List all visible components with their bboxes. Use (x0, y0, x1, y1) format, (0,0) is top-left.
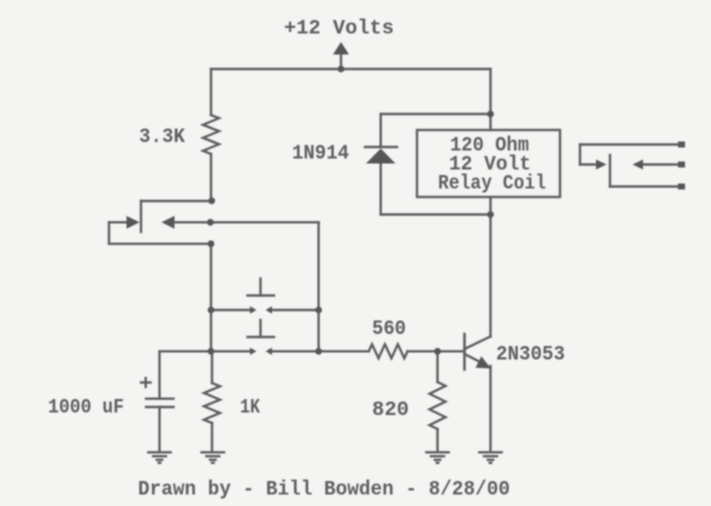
svg-text:Drawn by - Bill Bowden - 8/28/: Drawn by - Bill Bowden - 8/28/00 (138, 479, 510, 502)
svg-text:+12 Volts: +12 Volts (284, 18, 394, 41)
svg-text:820: 820 (372, 399, 409, 422)
svg-text:1N914: 1N914 (292, 143, 349, 166)
svg-text:560: 560 (372, 318, 406, 341)
svg-text:2N3053: 2N3053 (496, 344, 565, 367)
svg-text:1K: 1K (240, 397, 261, 420)
svg-text:3.3K: 3.3K (139, 126, 186, 149)
svg-text:Relay Coil: Relay Coil (438, 173, 546, 196)
svg-text:1000 uF: 1000 uF (48, 397, 124, 420)
